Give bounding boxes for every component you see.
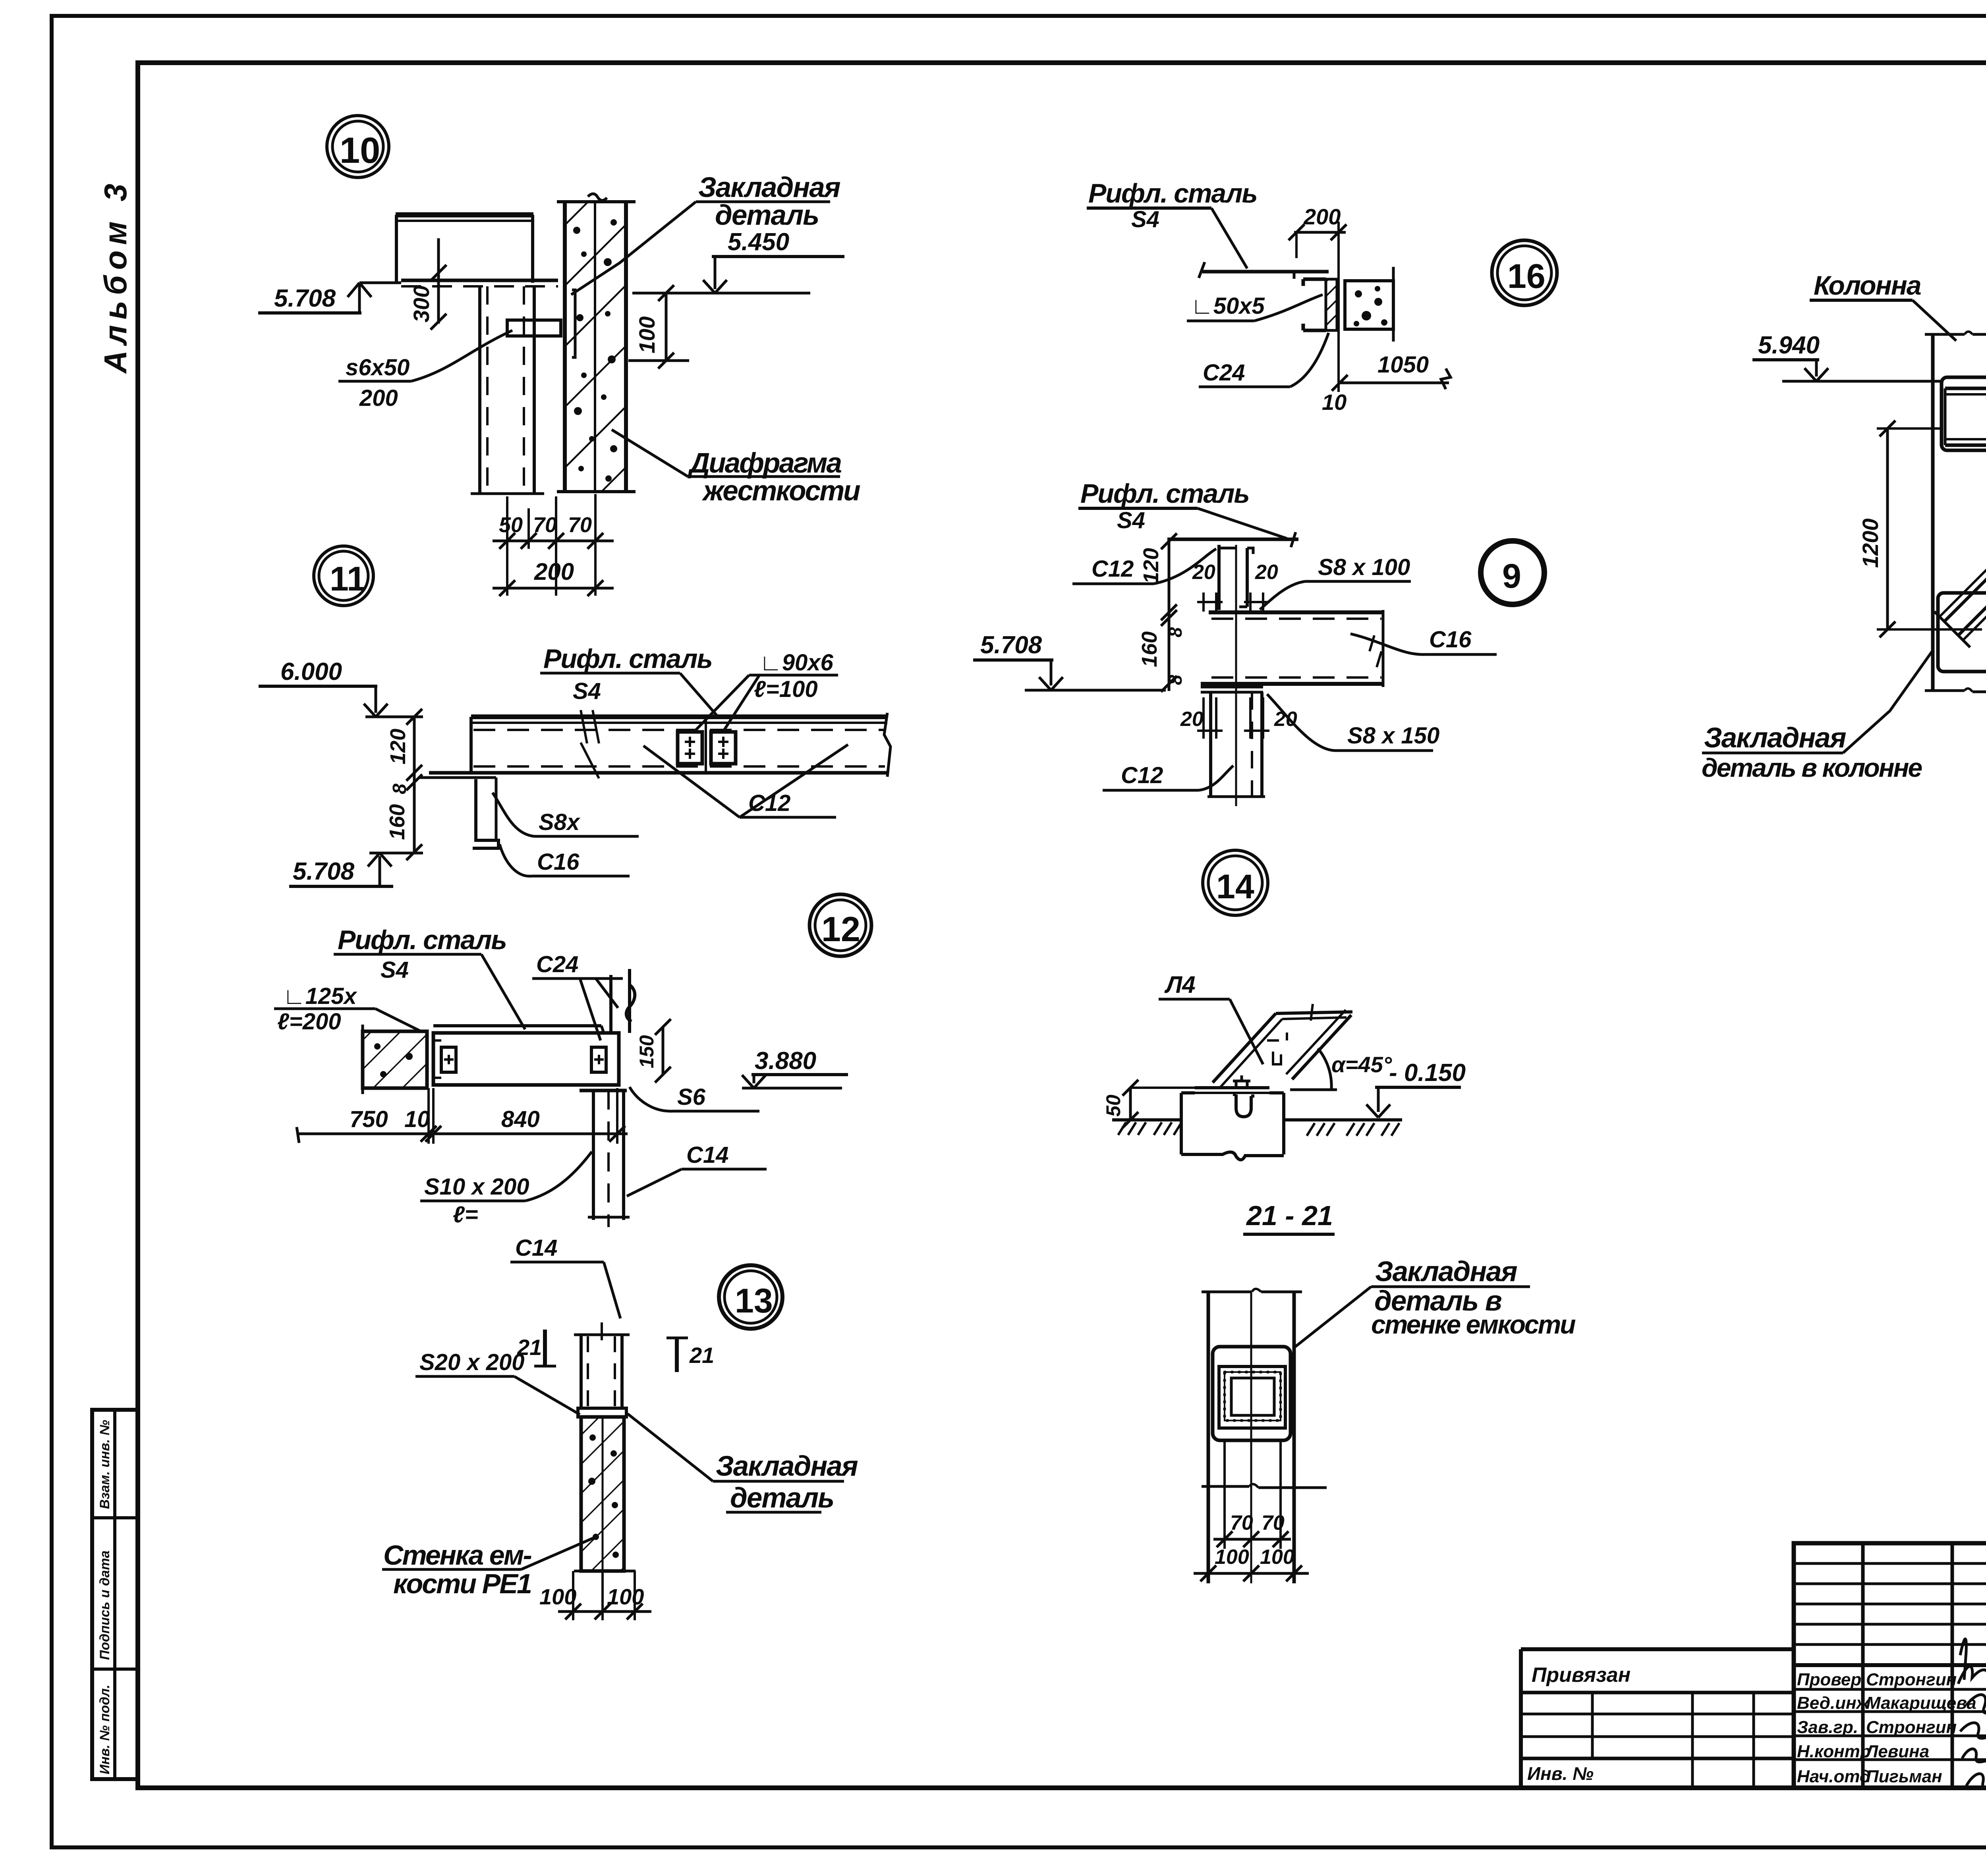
section 21-21 dims 70 70 (1213, 1440, 1291, 1549)
svg-text:Рифл. сталь: Рифл. сталь (1080, 479, 1249, 509)
detail 11 label C16 (500, 844, 630, 876)
detail 9 label Рифл. сталь S4 (1078, 479, 1287, 538)
svg-text:Колонна: Колонна (1814, 270, 1921, 301)
svg-text:C12: C12 (1121, 762, 1163, 788)
svg-text:C14: C14 (686, 1142, 728, 1168)
detail 9 bubble (1481, 541, 1544, 604)
svg-text:20: 20 (1274, 708, 1297, 731)
svg-text:16: 16 (1507, 257, 1546, 295)
detail 14 inclined ladder channel (1213, 1004, 1352, 1087)
detail 12 label C24 (532, 952, 623, 1040)
detail 9 weld dims 20 20 top (1192, 561, 1278, 612)
detail 15 lower diagonal brace (1934, 515, 1986, 647)
detail 11 label L90x6 l=100 (695, 650, 838, 731)
svg-text:6.000: 6.000 (280, 658, 342, 685)
svg-text:∟90x6: ∟90x6 (759, 650, 834, 676)
detail 16 channel C24 section (1303, 279, 1337, 330)
svg-text:5.708: 5.708 (293, 858, 355, 885)
detail 10 bubble (327, 116, 389, 178)
svg-text:C14: C14 (515, 1235, 557, 1261)
detail 9 label S8x100 (1260, 554, 1411, 610)
svg-text:деталь в колонне: деталь в колонне (1702, 753, 1922, 782)
detail 13 embedded plate S20x200 (578, 1408, 626, 1417)
vertical margin text: Альбом 3 (98, 178, 133, 374)
title block outer frame (1794, 1543, 1986, 1788)
svg-text:10: 10 (340, 130, 380, 171)
detail 15 column (1925, 332, 1986, 692)
svg-text:Левина: Левина (1865, 1742, 1929, 1761)
svg-text:S8 x 150: S8 x 150 (1347, 723, 1439, 749)
detail 10 concrete diaphragm wall (557, 194, 636, 492)
svg-text:ℓ=: ℓ= (453, 1202, 478, 1228)
svg-text:11: 11 (330, 560, 366, 598)
detail 14 U anchor (1233, 1094, 1254, 1117)
detail 11 bubble (314, 546, 373, 606)
svg-text:α=45°: α=45° (1331, 1052, 1392, 1077)
detail 11 splice joint bolt plates (678, 717, 736, 773)
svg-text:20: 20 (1180, 708, 1204, 731)
svg-text:S20 x 200: S20 x 200 (419, 1349, 524, 1375)
svg-text:S6: S6 (677, 1084, 706, 1110)
detail 16 concrete support block (1345, 267, 1393, 342)
title block horizontal lines (1794, 1563, 1986, 1760)
detail 15 elevation 5.940 (1752, 332, 1943, 381)
detail 12 label S6 (630, 1084, 759, 1111)
svg-text:C16: C16 (537, 849, 580, 875)
svg-text:∟50x5: ∟50x5 (1191, 293, 1265, 319)
svg-text:Привязан: Привязан (1532, 1664, 1631, 1687)
svg-text:s6x50: s6x50 (346, 355, 410, 380)
svg-text:21: 21 (689, 1343, 714, 1368)
detail 11 label C12 (643, 745, 848, 817)
detail 12 tread box assembly (433, 1026, 619, 1085)
detail 12 label C14 (627, 1142, 767, 1196)
svg-text:∟125x: ∟125x (283, 983, 358, 1009)
svg-text:21 - 21: 21 - 21 (1246, 1200, 1333, 1231)
svg-text:100: 100 (1215, 1546, 1249, 1569)
svg-text:70: 70 (1230, 1511, 1253, 1534)
detail 14 label Л4 (1159, 971, 1263, 1064)
detail 13 anchor rod (574, 1322, 630, 1408)
detail 14 elevation -0.150 (1366, 1059, 1466, 1117)
svg-text:деталь: деталь (730, 1482, 834, 1514)
svg-text:3.880: 3.880 (755, 1047, 816, 1075)
detail 11 dim 120 (386, 709, 422, 781)
detail 11 right break mark (884, 713, 891, 777)
title block signature names (1865, 1670, 1976, 1786)
svg-text:Инв. №: Инв. № (1527, 1763, 1594, 1784)
detail 15 label Колонна (1810, 270, 1956, 341)
svg-text:Макарищева: Макарищева (1866, 1693, 1976, 1713)
svg-text:Рифл. сталь: Рифл. сталь (543, 644, 712, 674)
detail 11 elevation 6.000 (259, 658, 423, 717)
svg-text:S4: S4 (1131, 207, 1159, 232)
svg-text:9: 9 (1502, 557, 1521, 595)
detail 9 dims 8 160 8 (1138, 610, 1186, 692)
svg-text:C24: C24 (1203, 360, 1245, 386)
detail 13 concrete tank wall (574, 1417, 636, 1571)
detail 13 bubble (719, 1265, 782, 1329)
svg-text:50: 50 (499, 513, 523, 537)
svg-text:Закладная: Закладная (716, 1451, 858, 1482)
svg-text:200: 200 (534, 558, 574, 585)
detail 9 label C16 (1350, 627, 1497, 654)
svg-text:8: 8 (1165, 675, 1186, 685)
detail 12 concrete wall block (363, 1025, 427, 1094)
section 21-21 header (1243, 1200, 1335, 1234)
svg-text:C12: C12 (1092, 556, 1134, 582)
detail 16 bubble (1492, 240, 1557, 305)
detail 10 label Диафрагма жесткости (612, 430, 860, 507)
detail 15 dim 1200 (1858, 421, 1982, 637)
svg-text:70: 70 (533, 513, 557, 537)
detail 10 top beam outline (396, 215, 533, 283)
detail 12 dim 150 (636, 1019, 671, 1083)
svg-text:Рифл. сталь: Рифл. сталь (338, 925, 506, 955)
detail 11 stair beam (channel with riffled steel) (429, 717, 887, 773)
svg-text:14: 14 (1216, 868, 1254, 906)
svg-text:деталь: деталь (715, 200, 819, 231)
detail 9 dim 120 (1139, 533, 1177, 620)
detail 10 label s6x50/200 (338, 330, 512, 411)
svg-text:100: 100 (634, 317, 659, 353)
detail 12 bubble (809, 894, 871, 956)
svg-text:100: 100 (607, 1584, 644, 1609)
svg-text:C16: C16 (1429, 627, 1472, 652)
detail 13 label Закладная деталь (628, 1414, 858, 1514)
svg-text:150: 150 (636, 1035, 658, 1068)
detail 12 label Рифл. сталь S4 (334, 925, 525, 1029)
detail 12 hanger rod C14 (580, 1090, 630, 1227)
svg-text:20: 20 (1255, 561, 1278, 584)
svg-text:Нач.отд: Нач.отд (1797, 1767, 1870, 1786)
detail 15 label Закладная деталь в колонне (1702, 649, 1934, 782)
svg-text:200: 200 (359, 385, 398, 411)
detail 14 bubble (1203, 850, 1268, 915)
svg-text:840: 840 (501, 1106, 540, 1132)
svg-text:1200: 1200 (1858, 518, 1883, 568)
detail 9 elevation 5.708 (973, 631, 1166, 690)
detail 12 label L125x l=200 (274, 983, 428, 1035)
svg-text:S4: S4 (573, 678, 601, 704)
svg-text:Закладная: Закладная (698, 172, 840, 203)
svg-text:ℓ=100: ℓ=100 (754, 676, 818, 702)
detail 10 elevation 5.708 (258, 283, 401, 313)
svg-text:Вед.инж: Вед.инж (1797, 1693, 1870, 1713)
detail 10 bottom dims 50 70 70 / 200 (493, 494, 614, 596)
detail 9 label S8x150 (1267, 694, 1439, 751)
svg-text:Закладная: Закладная (1375, 1256, 1517, 1287)
svg-text:100: 100 (539, 1584, 576, 1609)
svg-text:Л4: Л4 (1164, 971, 1196, 998)
svg-text:C24: C24 (536, 952, 578, 977)
svg-text:стенке емкости: стенке емкости (1371, 1310, 1576, 1339)
detail 16 label Рифл. сталь S4 (1087, 178, 1257, 268)
svg-text:S8 x 100: S8 x 100 (1318, 554, 1410, 580)
svg-text:Провер.: Провер. (1797, 1670, 1866, 1689)
detail 9 bottom plate (1201, 687, 1263, 692)
detail 16 floor plate line (1199, 262, 1329, 279)
detail 13 label C14 (510, 1235, 620, 1318)
svg-text:Рифл. сталь: Рифл. сталь (1088, 178, 1257, 208)
detail 14 foundation block (1181, 1093, 1284, 1160)
section 21-21 column outline (1202, 1289, 1327, 1584)
privyazan table (1521, 1649, 1794, 1788)
detail 13 dims 100 100 (539, 1571, 651, 1620)
title block vertical lines (1863, 1543, 1986, 1788)
detail 15 beam C24 left part (1945, 383, 1986, 449)
detail 10 dim 300 (409, 238, 446, 330)
title block handwritten signatures (1958, 1639, 1986, 1787)
svg-text:12: 12 (821, 909, 860, 949)
svg-text:8: 8 (389, 784, 410, 794)
detail 9 beam C16 (1201, 610, 1383, 687)
detail 13 section mark 21 left (517, 1330, 556, 1366)
detail 16 dim 1050 and 10 (1322, 352, 1451, 415)
svg-text:кости РЕ1: кости РЕ1 (393, 1568, 531, 1599)
svg-text:70: 70 (568, 513, 592, 537)
svg-text:S8x: S8x (539, 809, 581, 835)
svg-text:750: 750 (350, 1106, 388, 1132)
detail 9 label C12 upper (1072, 549, 1216, 584)
svg-text:5.708: 5.708 (980, 631, 1042, 659)
svg-text:S4: S4 (381, 957, 409, 983)
section 21-21 label Закладная деталь в стенке емкости (1295, 1256, 1576, 1347)
detail 12 label S10x200 l= (420, 1152, 592, 1228)
left stamp strip (92, 1410, 138, 1779)
svg-text:120: 120 (386, 729, 410, 764)
svg-text:160: 160 (385, 804, 409, 840)
detail 14 dim 50 (1102, 1080, 1195, 1128)
svg-text:200: 200 (1303, 204, 1341, 229)
section 21-21 dims 100 100 (1194, 1546, 1309, 1581)
section 21-21 embedded pocket (1213, 1347, 1291, 1440)
detail 13 label Стенка емкости РЕ1 (382, 1536, 598, 1599)
svg-text:50: 50 (1102, 1094, 1124, 1117)
svg-text:Н.контр: Н.контр (1797, 1742, 1871, 1761)
svg-text:8: 8 (1165, 627, 1186, 637)
detail 10 bracket plate s6x50 (507, 320, 561, 336)
svg-text:Стенка ем-: Стенка ем- (383, 1540, 532, 1571)
svg-text:Закладная: Закладная (1704, 722, 1846, 754)
svg-text:S4: S4 (1117, 508, 1145, 533)
detail 12 bottom dims 750 10 840 (297, 1088, 628, 1144)
svg-text:160: 160 (1138, 631, 1161, 667)
detail 16 dim 200 (1289, 204, 1347, 392)
svg-text:1050: 1050 (1377, 352, 1429, 378)
detail 10 landing plate at 5.708 (401, 280, 558, 286)
svg-text:13: 13 (735, 1282, 773, 1320)
detail 9 lower channel C12 (1207, 545, 1265, 806)
detail 12 elevation 3.880 (742, 1047, 848, 1088)
detail 10 dim 100 (628, 285, 689, 369)
svg-text:жесткости: жесткости (701, 475, 860, 507)
detail 9 weld dims 20 20 bottom (1180, 697, 1297, 739)
detail 10 label Закладная деталь (571, 172, 840, 295)
svg-text:10: 10 (404, 1106, 430, 1132)
svg-text:5.708: 5.708 (274, 285, 336, 312)
svg-text:Стронгин: Стронгин (1866, 1718, 1957, 1737)
detail 16 label L50x5 (1187, 293, 1323, 321)
svg-text:Диафрагма: Диафрагма (687, 448, 841, 479)
svg-text:100: 100 (1260, 1546, 1294, 1569)
svg-text:Подпись и дата: Подпись и дата (97, 1550, 112, 1660)
detail 11 beam break mark (581, 710, 599, 778)
detail 11 elevation 5.708 (289, 853, 423, 886)
svg-text:70: 70 (1262, 1511, 1285, 1534)
svg-text:Альбом 3: Альбом 3 (98, 178, 133, 374)
svg-text:Инв. № подл.: Инв. № подл. (97, 1685, 112, 1774)
svg-text:ℓ=200: ℓ=200 (277, 1009, 341, 1035)
detail 10 vertical post channel (471, 286, 544, 494)
svg-text:300: 300 (409, 286, 434, 322)
svg-text:10: 10 (1322, 390, 1347, 415)
detail 14 ground line with hatches (1112, 1120, 1402, 1136)
svg-text:Зав.гр.: Зав.гр. (1797, 1718, 1858, 1737)
svg-text:S10 x 200: S10 x 200 (424, 1174, 529, 1200)
detail 11 lower channel C16 (419, 778, 498, 848)
detail 11 label S8x (493, 793, 639, 836)
detail 14 base plate and bolt (1195, 1075, 1269, 1093)
svg-text:120: 120 (1139, 548, 1163, 584)
detail 15 upper embedded pocket in column (1942, 377, 1986, 450)
svg-text:Стронгин: Стронгин (1866, 1670, 1957, 1689)
detail 11 label Рифл. сталь S4 (540, 644, 717, 716)
detail 9 top landing plate (1167, 532, 1298, 547)
detail 13 section mark 21 right (667, 1338, 714, 1372)
detail 11 dim 160 / 8 (385, 773, 422, 860)
svg-text:Пигьман: Пигьман (1866, 1767, 1942, 1786)
svg-text:5.940: 5.940 (1758, 332, 1820, 359)
detail 9 upper channel C12 (1219, 545, 1253, 610)
title block signature roles (1797, 1670, 1871, 1786)
detail 10 elevation 5.450 (632, 228, 844, 293)
detail 16 label C24 (1199, 333, 1329, 387)
detail 13 label S20x200 (415, 1349, 580, 1415)
svg-text:5.450: 5.450 (728, 228, 789, 256)
svg-text:Взам. инв. №: Взам. инв. № (97, 1420, 112, 1509)
detail 9 label C12 lower (1103, 762, 1233, 790)
svg-text:- 0.150: - 0.150 (1389, 1059, 1466, 1087)
detail 15 lower embedded pocket in column (1938, 593, 1986, 672)
detail 14 angle 45 arc and label (1290, 1048, 1392, 1090)
svg-text:C12: C12 (748, 790, 790, 816)
detail 12 vertical channel C24 (611, 969, 635, 1033)
